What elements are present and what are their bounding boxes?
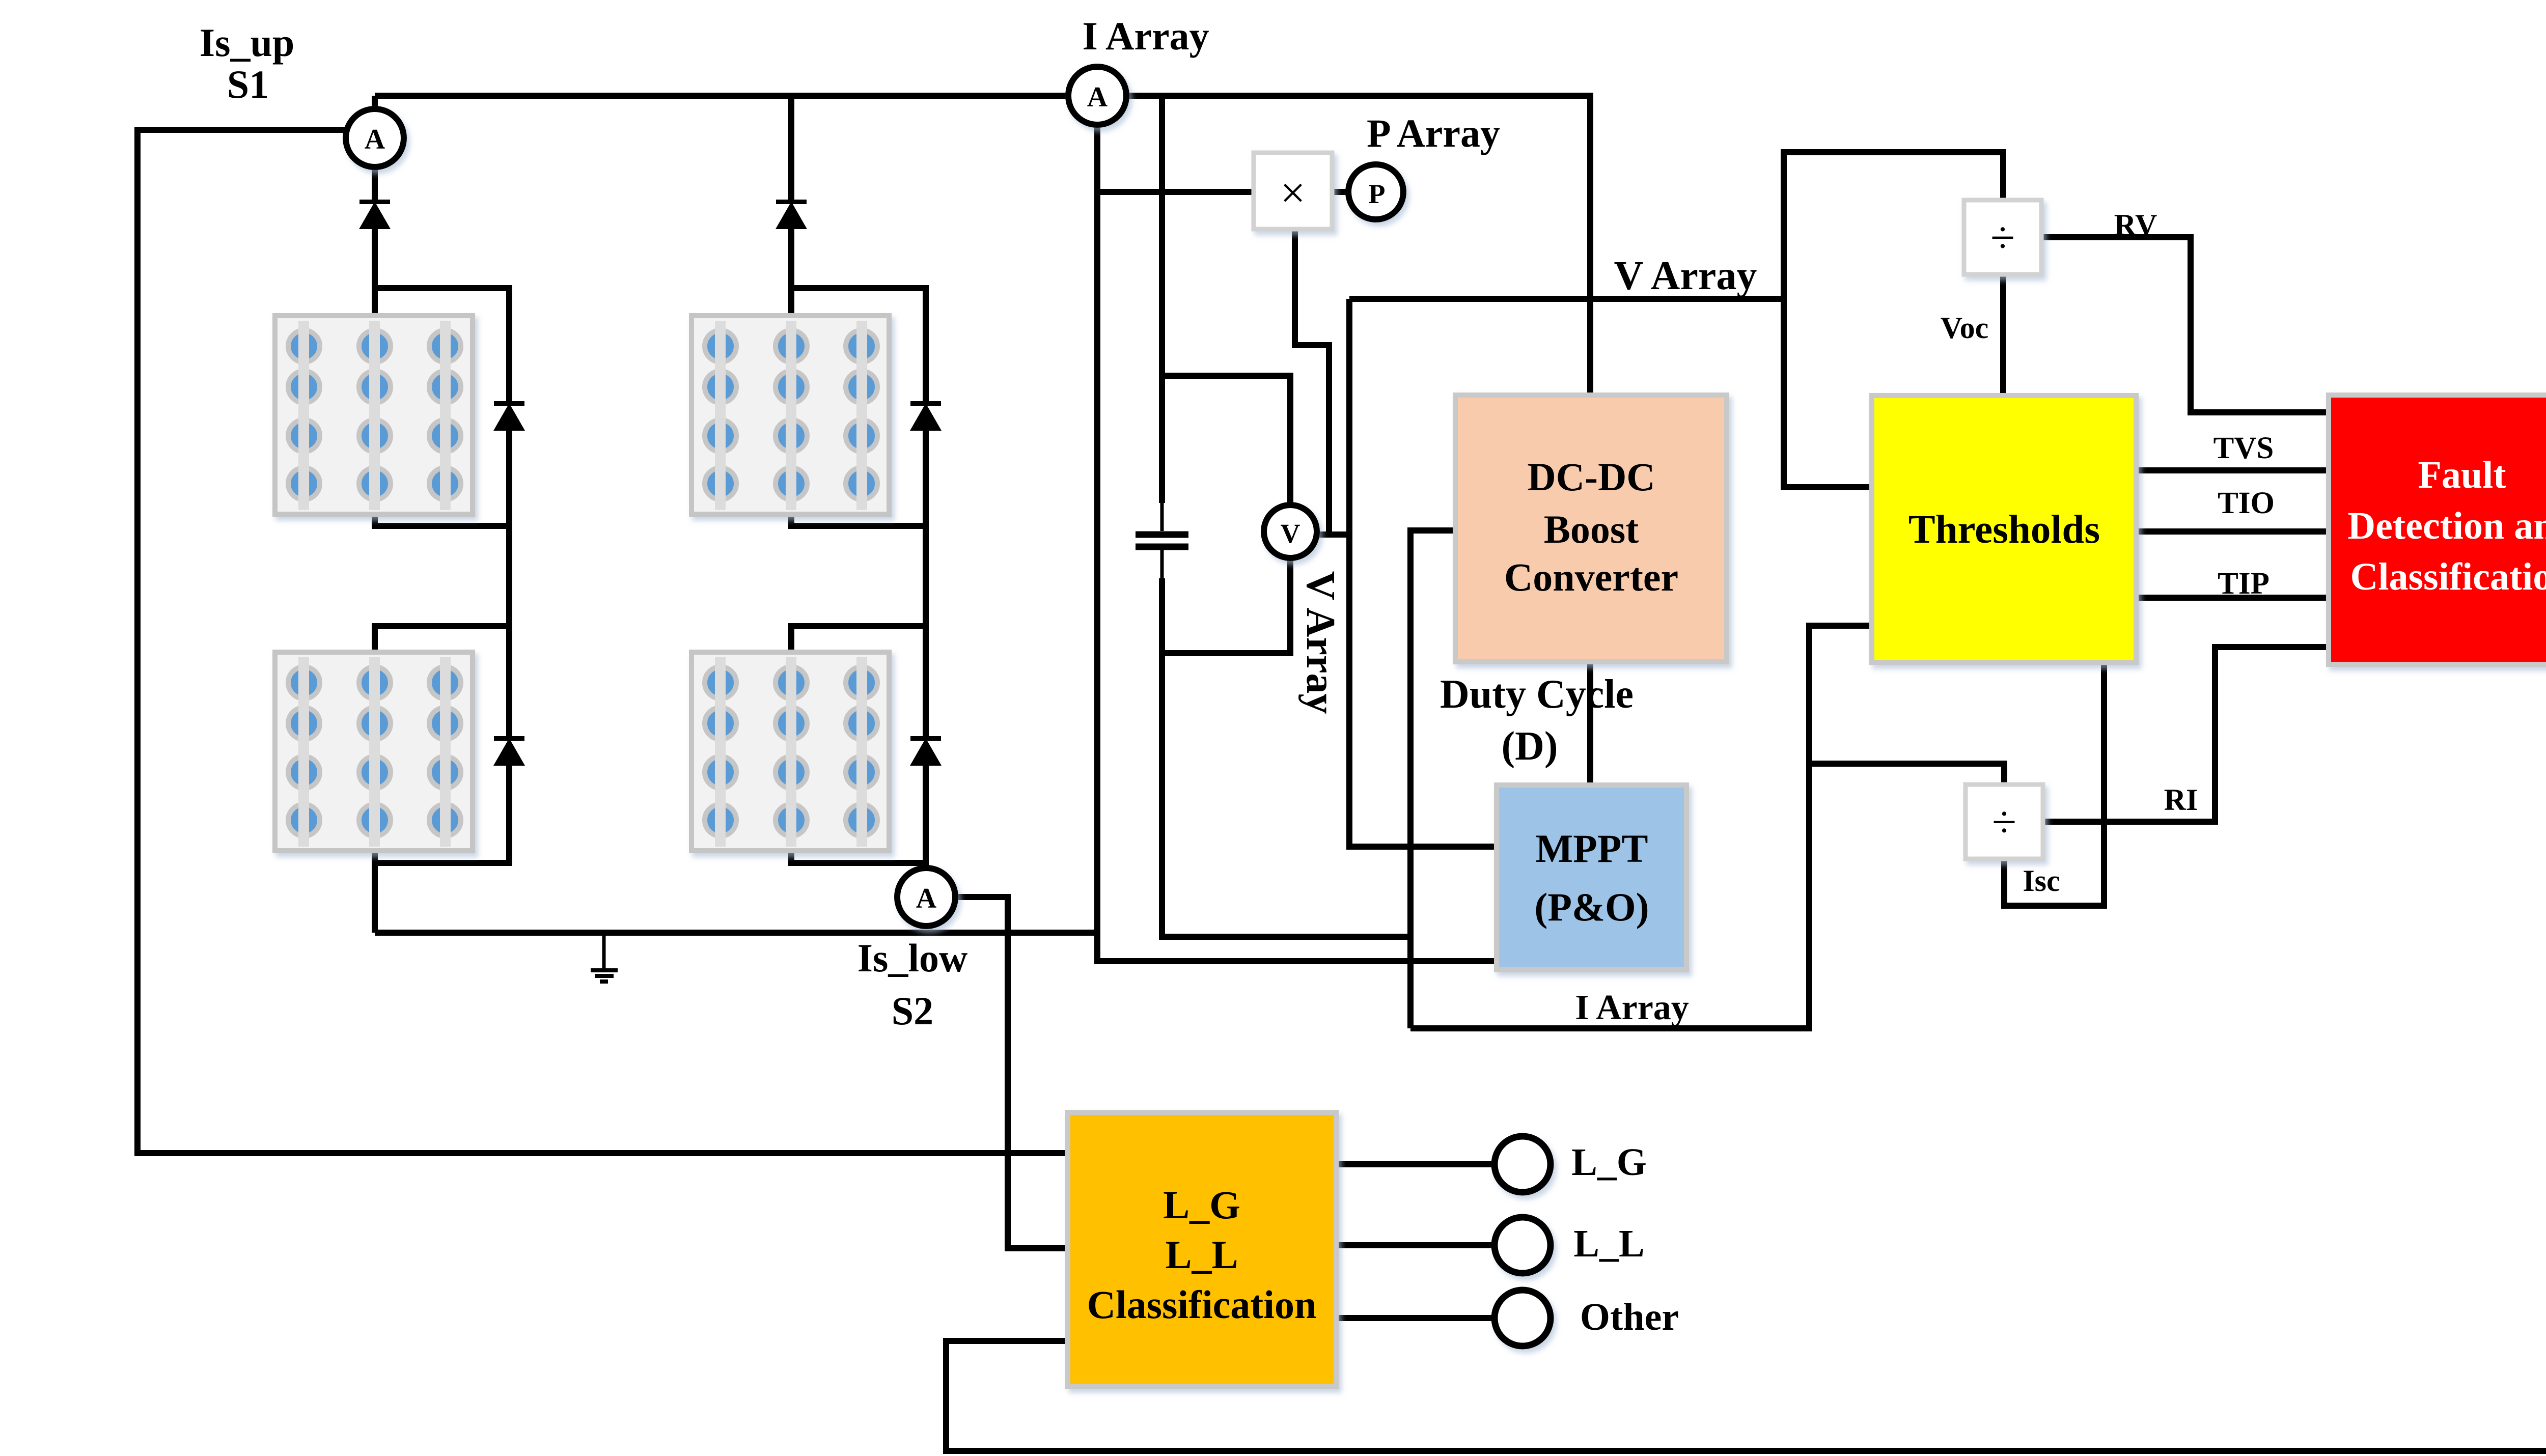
svg-text:V Array: V Array	[1298, 571, 1343, 714]
wire string2 lower bypass branch to diode D6	[923, 626, 929, 737]
power meter P	[1348, 164, 1403, 219]
svg-text:Duty Cycle: Duty Cycle	[1440, 672, 1634, 717]
capacitor C1 plates	[1136, 535, 1188, 547]
wire I Array bottom run to Thresholds input 2	[1410, 626, 1872, 1028]
wire RV from divider 1 to Fault block input 1	[2041, 237, 2329, 412]
svg-text:I Array: I Array	[1082, 14, 1209, 58]
svg-text:Detection and: Detection and	[2347, 505, 2546, 547]
svg-text:TIP: TIP	[2218, 567, 2270, 601]
divider box U1 (RV)	[1964, 200, 2041, 274]
ammeter A2 (I Array)	[1068, 67, 1126, 125]
wire duty cycle D from DC-DC to MPPT	[1587, 662, 1593, 785]
svg-text:(D): (D)	[1501, 724, 1558, 769]
diode D2 string1 upper bypass	[493, 401, 525, 431]
wire DC link top drop to capacitor	[1159, 96, 1165, 503]
wire V Array branch up to divider 1	[1784, 152, 2003, 299]
wire V meter bottom return tap	[1165, 558, 1290, 653]
svg-text:Isc: Isc	[2023, 864, 2060, 898]
ground	[591, 933, 618, 982]
node Other output	[1495, 1290, 1551, 1346]
svg-text:Classification: Classification	[1087, 1282, 1317, 1327]
block L_G L_L Classification	[1068, 1112, 1336, 1386]
wire string1 bypass D2 to mid rail	[375, 430, 509, 526]
multiplier box	[1254, 153, 1332, 229]
svg-text:L_L: L_L	[1165, 1233, 1238, 1277]
pv module PV2	[691, 316, 889, 514]
pv module PV4	[691, 652, 889, 851]
wire DC-DC return input	[1410, 530, 1455, 1028]
wire V Array line to Thresholds branch	[1349, 296, 1784, 302]
wire ground bus	[375, 930, 1098, 936]
wire string2 bypass D5 to mid rail	[791, 430, 926, 526]
pv module PV1	[275, 316, 473, 514]
svg-text:Classification: Classification	[2350, 555, 2546, 598]
diode D4 string2 series	[776, 200, 807, 229]
wire L_L output	[1336, 1242, 1493, 1248]
block Fault Detection and Classification	[2329, 395, 2546, 664]
wire L_G output	[1336, 1161, 1493, 1167]
svg-text:RV: RV	[2114, 208, 2157, 242]
svg-text:S2: S2	[892, 989, 933, 1033]
wire capacitor bottom rail to DC-DC return	[1162, 578, 1410, 937]
wire I Array branch to divider 2	[1809, 764, 2004, 785]
svg-text:Thresholds: Thresholds	[1908, 508, 2100, 552]
diode D1 string1 series	[359, 200, 391, 229]
wire string2 inter-group link	[791, 526, 926, 653]
wire multiplier output down to V node	[1295, 229, 1329, 535]
voltmeter V	[1264, 505, 1317, 558]
svg-text:S1: S1	[227, 62, 269, 106]
svg-text:DC-DC: DC-DC	[1527, 455, 1655, 499]
wire S1 meter bottom to diode D1	[372, 167, 378, 202]
svg-text:(P&O): (P&O)	[1534, 885, 1649, 929]
wire string2 bottom rail to S2 meter	[923, 863, 929, 869]
svg-text:MPPT: MPPT	[1536, 826, 1648, 871]
diode D6 string2 lower bypass	[910, 736, 942, 766]
wire V meter top sense tap	[1162, 376, 1290, 505]
block DC-DC Boost Converter	[1455, 395, 1727, 662]
svg-text:Converter: Converter	[1504, 555, 1678, 599]
wire S1 meter top stub	[372, 96, 378, 109]
capacitor C1 leads	[1160, 501, 1164, 580]
svg-text:×: ×	[1280, 169, 1306, 218]
wire V Array riser down to MPPT upper input	[1349, 299, 1497, 847]
diode D3 string1 lower bypass	[493, 736, 525, 766]
wire string2 top rail and bypass branch to diode D5	[791, 288, 926, 402]
wire Other output	[1336, 1315, 1493, 1321]
wire top bus from S1 meter to DC-DC input	[375, 96, 1590, 395]
wire S2 meter branch to L_G block input 2	[955, 897, 1068, 1248]
wire string1 top rail and bypass branch down to diode D2	[375, 288, 509, 402]
svg-text:L_L: L_L	[1573, 1222, 1644, 1265]
wire TVS	[2136, 467, 2329, 473]
wire TIO	[2136, 528, 2329, 535]
svg-text:V Array: V Array	[1614, 254, 1757, 298]
wire Short feedback loop to L_G block input 3	[946, 564, 2546, 1451]
wire Is_up loop: left feedback from S1 meter to L_G block input 1	[137, 130, 1068, 1153]
svg-text:÷: ÷	[1990, 213, 2015, 263]
ammeter S1 (Is_up)	[346, 109, 404, 167]
svg-text:L_G: L_G	[1571, 1141, 1647, 1184]
node L_G output	[1495, 1136, 1551, 1192]
wire multiplier input from I sense line	[1100, 189, 1254, 195]
node L_L output	[1495, 1217, 1551, 1273]
svg-text:÷: ÷	[1992, 798, 2016, 847]
svg-text:TVS: TVS	[2213, 431, 2274, 465]
svg-text:Fault: Fault	[2418, 454, 2506, 496]
wire string1 diode D1 to top rail	[372, 229, 378, 316]
divider box U2 (RI)	[1966, 785, 2043, 859]
svg-text:P: P	[1369, 179, 1386, 209]
svg-text:RI: RI	[2164, 783, 2198, 817]
svg-text:A: A	[365, 124, 385, 155]
svg-text:Is_low: Is_low	[857, 936, 968, 980]
svg-text:Boost: Boost	[1544, 507, 1639, 551]
diode D5 string2 upper bypass	[910, 401, 942, 431]
svg-text:Is_up: Is_up	[200, 20, 294, 65]
wire Isc from Thresholds bottom to divider 2	[2004, 662, 2104, 906]
wire P meter stub	[1332, 189, 1348, 195]
wire string2 diode D4 to top rail	[788, 229, 794, 316]
svg-text:L_G: L_G	[1163, 1183, 1240, 1227]
wire V meter right stub to V Array riser	[1318, 531, 1349, 538]
svg-text:P Array: P Array	[1367, 111, 1500, 155]
wire string1 inter-group link	[375, 526, 509, 653]
wire TIP	[2136, 595, 2329, 601]
pv module PV3	[275, 652, 473, 851]
wire I Array sense drop from A meter to MPPT lower input	[1097, 125, 1497, 961]
svg-text:Other: Other	[1580, 1296, 1679, 1338]
wire string1 lower bypass D3 to bottom rail	[375, 765, 509, 863]
svg-text:I Array: I Array	[1575, 988, 1689, 1027]
wire string2 top drop from bus to diode D4	[788, 96, 794, 202]
svg-text:A: A	[916, 883, 937, 914]
block MPPT (P&O)	[1497, 785, 1686, 970]
wire RI from divider 2 to Fault block input 5	[2041, 647, 2329, 822]
wire string1 lower bypass branch to diode D3	[506, 626, 512, 737]
wire Voc from Thresholds to divider 1	[2000, 274, 2006, 396]
wire string1 bottom rail to ground bus	[372, 863, 378, 933]
wire V Array branch down to Thresholds input 1	[1784, 299, 1872, 487]
svg-text:Voc: Voc	[1941, 311, 1988, 345]
svg-text:TIO: TIO	[2218, 486, 2275, 520]
ammeter S2 (Is_low)	[897, 868, 955, 926]
svg-text:A: A	[1087, 81, 1108, 113]
block Thresholds	[1872, 396, 2136, 662]
svg-text:V: V	[1281, 518, 1300, 549]
wire string2 lower bypass D6 to bottom rail	[791, 765, 926, 863]
